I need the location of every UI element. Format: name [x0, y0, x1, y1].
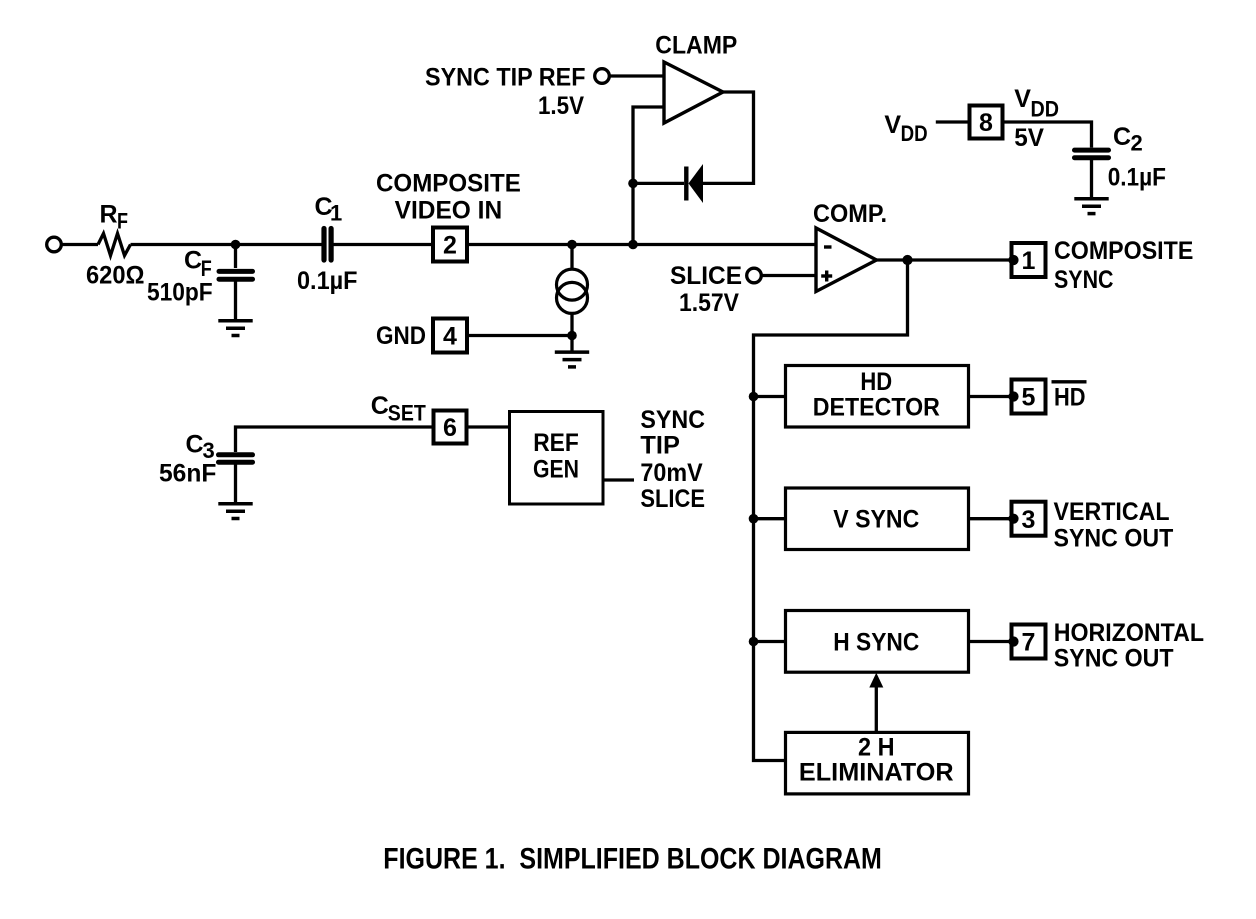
svg-text:1: 1 — [1022, 247, 1036, 275]
label CF — [184, 247, 212, 281]
wire V block to pin3 — [969, 517, 1014, 520]
node C clamp tap — [628, 240, 638, 250]
svg-text:0.1µF: 0.1µF — [1108, 163, 1166, 191]
svg-text:2: 2 — [1131, 130, 1143, 155]
wire pin6 to REF GEN — [467, 425, 510, 428]
block REF GEN — [510, 412, 604, 505]
wire pin2 to comparator — [467, 243, 816, 246]
svg-text:6: 6 — [443, 414, 457, 442]
node B current source tap — [567, 240, 577, 250]
input terminal — [47, 237, 62, 252]
svg-text:7: 7 — [1022, 629, 1036, 657]
svg-text:COMP.: COMP. — [813, 200, 887, 228]
block HD DETECTOR — [786, 366, 969, 428]
node F comparator output — [902, 255, 912, 265]
current source I1 — [557, 269, 588, 313]
terminal SLICE — [747, 268, 762, 283]
svg-text:SYNC OUT: SYNC OUT — [1054, 645, 1174, 673]
wire pin4 to node D — [467, 334, 572, 337]
svg-text:SYNC OUT: SYNC OUT — [1054, 525, 1174, 553]
wire VDD to pin8 — [936, 120, 970, 123]
svg-text:620Ω: 620Ω — [86, 262, 145, 290]
svg-text:VIDEO IN: VIDEO IN — [395, 196, 503, 224]
svg-text:DD: DD — [901, 121, 928, 146]
pin 2 — [433, 228, 467, 262]
svg-text:SYNC TIP REF: SYNC TIP REF — [425, 64, 586, 92]
wire RF to C1 — [131, 243, 322, 246]
wire H block to pin7 — [969, 640, 1014, 643]
svg-text:REF: REF — [533, 429, 579, 457]
wire feedback bus — [754, 260, 908, 761]
wire HD block to pin5 — [969, 395, 1014, 398]
node D gnd node — [567, 331, 577, 341]
node bus V — [749, 514, 759, 524]
wire input to RF — [62, 243, 99, 246]
wire clamp output to diode — [703, 92, 754, 183]
svg-text:ELIMINATOR: ELIMINATOR — [799, 759, 954, 787]
svg-text:1: 1 — [330, 201, 342, 226]
overline HD — [1052, 380, 1087, 383]
node E diode junction — [628, 179, 638, 189]
svg-text:V SYNC: V SYNC — [833, 506, 919, 534]
svg-text:FIGURE 1. SIMPLIFIED BLOCK DI: FIGURE 1. SIMPLIFIED BLOCK DIAGRAM — [383, 843, 882, 876]
wire C1 to pin2 — [334, 243, 434, 246]
capacitor CF — [219, 245, 253, 320]
block text REF GEN — [533, 429, 579, 484]
svg-text:3: 3 — [1022, 506, 1036, 534]
label CSET — [371, 392, 427, 425]
label COMPOSITE VIDEO IN — [376, 170, 521, 225]
svg-text:5: 5 — [1022, 384, 1036, 412]
svg-text:1.5V: 1.5V — [538, 92, 584, 120]
svg-text:GND: GND — [376, 322, 426, 350]
node A — [231, 240, 241, 250]
block text HD DETECTOR — [813, 368, 940, 422]
wire bus to V block — [754, 517, 786, 520]
wire terminal to clamp — [610, 74, 665, 77]
pin 5 — [1008, 380, 1045, 414]
wire node C up to diode node — [631, 183, 634, 244]
svg-text:GEN: GEN — [533, 455, 579, 483]
svg-text:HORIZONTAL: HORIZONTAL — [1054, 619, 1204, 647]
block V SYNC — [786, 488, 969, 550]
label COMPOSITE SYNC — [1054, 237, 1193, 294]
svg-text:2: 2 — [443, 232, 457, 260]
wire bus to HD block — [754, 395, 786, 398]
wire comparator out to pin1 — [877, 258, 1014, 261]
ground C3 — [218, 504, 252, 519]
pin 1 — [1008, 243, 1045, 277]
svg-text:C: C — [371, 392, 389, 420]
svg-text:SYNC: SYNC — [1054, 266, 1114, 294]
svg-text:510pF: 510pF — [147, 279, 213, 307]
wire SLICE to comparator plus — [762, 274, 817, 277]
capacitor C2 — [1075, 150, 1109, 197]
node bus H — [749, 637, 759, 647]
pin 4 — [433, 319, 467, 353]
svg-text:SLICE: SLICE — [670, 262, 742, 290]
svg-text:VERTICAL: VERTICAL — [1054, 498, 1170, 526]
wire node B down — [570, 245, 573, 271]
minus sign — [824, 245, 832, 248]
wire REF GEN output — [603, 478, 634, 481]
pin 7 — [1008, 625, 1045, 659]
wire pin8 to C2 — [1003, 122, 1092, 148]
svg-text:2 H: 2 H — [858, 734, 895, 762]
label C3 — [186, 430, 215, 463]
node bus HD — [749, 392, 759, 402]
wire diode node up to clamp input — [633, 107, 664, 183]
ground CF — [218, 321, 252, 336]
svg-text:C: C — [1113, 123, 1131, 151]
svg-text:4: 4 — [443, 323, 457, 351]
svg-text:8: 8 — [979, 109, 993, 137]
svg-text:COMPOSITE: COMPOSITE — [376, 170, 521, 198]
svg-text:70mV: 70mV — [640, 459, 703, 487]
label VDD 5V — [1014, 85, 1059, 152]
svg-text:C: C — [184, 247, 202, 275]
svg-text:SYNC: SYNC — [640, 406, 705, 434]
svg-text:HD: HD — [1054, 384, 1086, 412]
svg-text:HD: HD — [860, 368, 892, 396]
svg-text:CLAMP: CLAMP — [655, 32, 737, 60]
svg-text:COMPOSITE: COMPOSITE — [1054, 237, 1193, 265]
svg-text:F: F — [201, 256, 212, 281]
label RF — [100, 201, 129, 234]
resistor RF — [98, 234, 131, 256]
svg-text:DETECTOR: DETECTOR — [813, 394, 940, 422]
svg-text:SLICE: SLICE — [640, 485, 705, 513]
label VDD left — [884, 111, 927, 146]
block 2H ELIMINATOR — [786, 732, 969, 794]
svg-text:DD: DD — [1031, 96, 1060, 121]
svg-text:F: F — [117, 209, 128, 234]
wire current source to gnd node — [570, 313, 573, 351]
label HORIZONTAL SYNC OUT — [1054, 619, 1204, 673]
wire arrow 2H to H SYNC — [875, 684, 878, 732]
svg-text:5V: 5V — [1014, 124, 1044, 152]
label SYNC TIP 70mV SLICE — [640, 406, 705, 513]
svg-text:V: V — [1014, 85, 1031, 113]
capacitor C3 — [219, 455, 253, 502]
svg-text:TIP: TIP — [640, 432, 680, 460]
svg-text:56nF: 56nF — [159, 460, 216, 488]
op-amp clamp U1 — [664, 62, 723, 123]
svg-text:1.57V: 1.57V — [679, 289, 739, 317]
pin 3 — [1008, 502, 1045, 536]
svg-text:H SYNC: H SYNC — [833, 629, 919, 657]
block text 2H ELIMINATOR — [799, 734, 954, 787]
svg-text:C: C — [186, 430, 204, 458]
comparator U2 — [816, 228, 877, 292]
terminal SYNC TIP REF — [595, 69, 610, 84]
plus sign — [821, 271, 832, 282]
diode D1 — [633, 164, 703, 203]
svg-text:SET: SET — [388, 400, 426, 425]
svg-text:V: V — [884, 111, 901, 139]
wire C3 to pin6 — [236, 427, 434, 452]
svg-text:R: R — [100, 201, 118, 229]
svg-text:0.1µF: 0.1µF — [297, 267, 358, 295]
ground current source — [555, 352, 589, 367]
label C2 — [1113, 123, 1143, 155]
block H SYNC — [786, 611, 969, 673]
label VERTICAL SYNC OUT — [1054, 498, 1174, 553]
arrowhead — [869, 673, 883, 688]
ground C2 — [1074, 199, 1108, 214]
pin 6 — [434, 411, 467, 444]
capacitor C1 — [324, 229, 331, 261]
pin 8 — [970, 106, 1003, 139]
wire bus to H block — [754, 640, 786, 643]
label C1 — [315, 193, 343, 226]
